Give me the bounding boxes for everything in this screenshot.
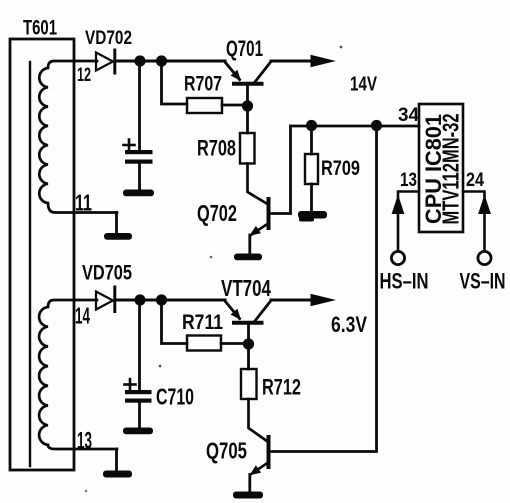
junction node (rail / Q705 collector branch) bbox=[371, 120, 382, 131]
ground (R709) bbox=[298, 211, 327, 222]
wire (Q705 base to pin-34 rail node) bbox=[270, 130, 377, 452]
arrow (into pin 24) bbox=[478, 195, 491, 215]
resistor R709 bbox=[305, 154, 318, 184]
VD705 label bbox=[82, 262, 132, 285]
terminal VS-IN bbox=[478, 251, 491, 264]
pin label 34 bbox=[398, 105, 419, 126]
svg-text:12: 12 bbox=[77, 65, 91, 86]
wire (R712 to Q705 collector) bbox=[249, 399, 268, 442]
14V label bbox=[350, 74, 377, 96]
CPU IC801 bbox=[419, 104, 463, 232]
svg-text:11: 11 bbox=[75, 190, 92, 216]
resistor R711 bbox=[187, 336, 221, 351]
wire (R711 to VT704 base node) bbox=[221, 342, 244, 345]
R707 label bbox=[184, 73, 222, 96]
diode VD705 bbox=[96, 287, 115, 312]
scan speck 4 bbox=[85, 490, 88, 493]
ground (Q702 emitter) bbox=[234, 254, 262, 261]
resistor R708 bbox=[240, 133, 255, 164]
wire (VT704 collector to 6.3V arrow) bbox=[271, 299, 312, 302]
ground (C710) bbox=[123, 428, 153, 435]
R708 label bbox=[197, 136, 236, 161]
transistor Q701 bbox=[225, 62, 271, 103]
R711 label bbox=[182, 311, 223, 334]
C710 label bbox=[156, 384, 194, 410]
ground (filter cap) bbox=[123, 190, 154, 197]
wire (R709 to ground) bbox=[310, 184, 313, 211]
transistor Q705 bbox=[250, 437, 269, 492]
junction node (rectified 14V, cap) bbox=[134, 55, 145, 66]
wire (R708 to Q702 collector) bbox=[248, 164, 268, 205]
6.3V label bbox=[331, 312, 367, 337]
junction node (rectified 14V, R707 feed) bbox=[156, 55, 167, 66]
svg-text:R711: R711 bbox=[182, 311, 223, 334]
transistor VT704 bbox=[225, 301, 271, 341]
scan speck 1 bbox=[340, 46, 343, 49]
svg-text:R708: R708 bbox=[197, 136, 236, 161]
svg-text:34: 34 bbox=[398, 105, 419, 126]
svg-text:VD702: VD702 bbox=[85, 28, 132, 49]
svg-text:R712: R712 bbox=[262, 375, 301, 400]
arrow (into pin 13) bbox=[392, 195, 405, 215]
wire (rail to R709) bbox=[310, 130, 313, 154]
pin label 11 bbox=[75, 190, 92, 216]
svg-text:VD705: VD705 bbox=[82, 262, 132, 285]
svg-text:MTV112MN-32: MTV112MN-32 bbox=[438, 114, 464, 225]
junction node (Q701 base / R707 / R708) bbox=[242, 100, 253, 111]
T601 label bbox=[23, 17, 57, 40]
junction node (rail / R709) bbox=[306, 120, 317, 131]
svg-text:14: 14 bbox=[75, 303, 90, 329]
svg-text:13: 13 bbox=[400, 170, 417, 191]
R709 label bbox=[321, 157, 360, 180]
pin label 24 bbox=[466, 170, 484, 191]
diode VD702 bbox=[96, 50, 115, 73]
VT704 label bbox=[221, 275, 271, 301]
wire (node to R708) bbox=[246, 110, 249, 133]
CPU IC801 label (rotated) bbox=[421, 114, 464, 225]
svg-text:Q705: Q705 bbox=[206, 438, 247, 464]
winding pins 12-11 bbox=[39, 61, 117, 213]
svg-text:13: 13 bbox=[77, 428, 92, 455]
wire (pin 24 to VS-IN terminal) bbox=[463, 192, 485, 252]
wire (node to R711) bbox=[162, 300, 188, 344]
svg-text:R709: R709 bbox=[321, 157, 360, 180]
winding pins 14-13 bbox=[39, 300, 117, 449]
capacitor C710 bbox=[125, 300, 152, 428]
resistor R707 bbox=[187, 98, 222, 113]
transformer T601 body bbox=[10, 39, 74, 470]
junction node (rectified 6.3V, R711 feed) bbox=[156, 294, 167, 305]
scan speck 2 bbox=[210, 256, 213, 259]
junction node (VT704 base / R711 / R712) bbox=[243, 338, 254, 349]
ground (Q705 emitter) bbox=[233, 492, 263, 499]
pin label 13 bbox=[400, 170, 417, 191]
Q701 label bbox=[226, 36, 263, 61]
HS-IN label bbox=[380, 269, 429, 294]
6.3V output arrow bbox=[311, 294, 337, 306]
terminal HS-IN bbox=[391, 251, 404, 264]
resistor R712 bbox=[241, 369, 257, 399]
wire (R707 to Q701 base node) bbox=[222, 104, 243, 107]
svg-text:T601: T601 bbox=[23, 17, 57, 40]
wire (pin-34 rail) bbox=[291, 125, 420, 128]
R712 label bbox=[262, 375, 301, 400]
VS-IN label bbox=[460, 269, 506, 294]
ground (pin 13 return) bbox=[103, 449, 132, 478]
svg-text:C710: C710 bbox=[156, 384, 194, 410]
capacitor C703 (filter, unlabeled) bbox=[124, 61, 153, 190]
wire (Q701 collector to 14V arrow) bbox=[271, 60, 312, 63]
wire (pin 13 to HS-IN terminal) bbox=[398, 192, 419, 252]
svg-text:HS–IN: HS–IN bbox=[380, 269, 429, 294]
Q705 label bbox=[206, 438, 247, 464]
pin label 12 bbox=[77, 65, 91, 86]
scan speck 3 bbox=[159, 365, 162, 368]
junction node (rectified 6.3V, C710) bbox=[134, 294, 145, 305]
svg-text:Q702: Q702 bbox=[197, 200, 237, 226]
pin label 13 (transformer) bbox=[77, 428, 92, 455]
VD702 label bbox=[85, 28, 132, 49]
svg-text:6.3V: 6.3V bbox=[331, 312, 367, 337]
svg-text:14V: 14V bbox=[350, 74, 377, 96]
svg-text:VT704: VT704 bbox=[221, 275, 271, 301]
wire (Q702 base to pin-34 rail) bbox=[270, 126, 291, 214]
wire (VD705 cathode to VT704 emitter) bbox=[116, 298, 225, 301]
wire (node to R712) bbox=[247, 348, 250, 369]
wire (VD702 cathode to Q701 emitter) bbox=[116, 59, 225, 62]
svg-text:Q701: Q701 bbox=[226, 36, 263, 61]
wire (node to R707) bbox=[162, 61, 188, 104]
transistor Q702 bbox=[249, 199, 268, 254]
svg-text:VS–IN: VS–IN bbox=[460, 269, 506, 294]
Q702 label bbox=[197, 200, 237, 226]
pin label 14 bbox=[75, 303, 90, 329]
svg-text:24: 24 bbox=[466, 170, 484, 191]
14V output arrow bbox=[311, 55, 337, 67]
ground (pin 11 return) bbox=[104, 213, 132, 240]
svg-text:R707: R707 bbox=[184, 73, 222, 96]
